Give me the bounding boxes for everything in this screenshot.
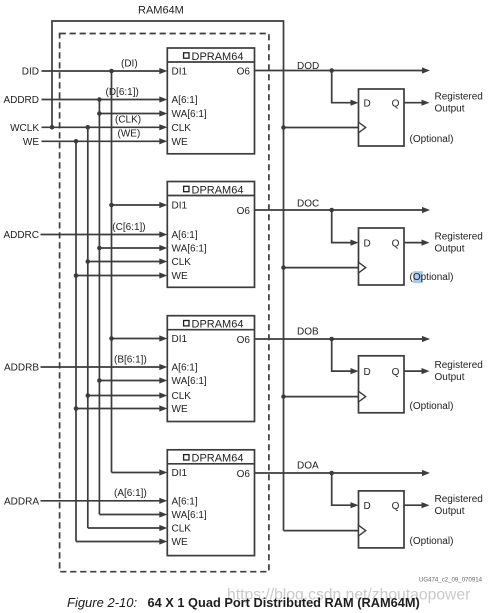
- DPRAM64 block U3: [167, 316, 254, 422]
- svg-text:Q: Q: [392, 98, 400, 109]
- DPRAM64 block U1: [167, 48, 254, 154]
- wire WA bus branch to block: [99, 247, 160, 249]
- node DI bus source junction: [109, 69, 114, 74]
- svg-text:Registered: Registered: [435, 92, 483, 103]
- svg-text:DPRAM64: DPRAM64: [192, 319, 244, 331]
- flip-flop register for DOD: [359, 89, 405, 146]
- wire WA bus branch to block: [99, 380, 160, 382]
- RAM64M dashed boundary: [60, 34, 269, 572]
- svg-text:DPRAM64: DPRAM64: [192, 184, 244, 196]
- wire DI vertical bus: [111, 71, 113, 473]
- wire output DOC from O6: [255, 209, 423, 211]
- svg-text:Output: Output: [435, 104, 465, 115]
- svg-text:(WE): (WE): [118, 129, 141, 140]
- wire WE bus end branch to block: [76, 541, 160, 543]
- svg-text:O6: O6: [237, 335, 251, 346]
- svg-text:DOB: DOB: [297, 326, 319, 337]
- wire DOB branch to FF D input: [332, 339, 352, 371]
- svg-text:(DI): (DI): [121, 58, 138, 69]
- svg-text:WE: WE: [23, 137, 39, 148]
- svg-text:A[6:1]: A[6:1]: [172, 95, 198, 106]
- svg-text:DPRAM64: DPRAM64: [192, 453, 244, 465]
- svg-text:A[6:1]: A[6:1]: [172, 363, 198, 374]
- svg-text:Figure 2-10:: Figure 2-10:: [67, 595, 137, 610]
- svg-text:CLK: CLK: [172, 257, 192, 268]
- node CLK bus tap junction: [86, 259, 91, 264]
- node WCLK tap for DOC register: [281, 265, 286, 270]
- wire clock branch to DOC register: [284, 267, 359, 269]
- svg-text:DI1: DI1: [172, 468, 188, 479]
- svg-text:Registered: Registered: [435, 494, 483, 505]
- svg-text:WE: WE: [172, 137, 188, 148]
- svg-text:WE: WE: [172, 404, 188, 415]
- node DOC branch junction: [329, 208, 334, 213]
- svg-text:RAM64M: RAM64M: [138, 5, 184, 17]
- svg-text:O6: O6: [237, 469, 251, 480]
- svg-text:DOA: DOA: [297, 461, 319, 472]
- node WCLK tap on left riser: [50, 125, 55, 130]
- wire output DOA from O6: [255, 472, 423, 474]
- svg-text:Output: Output: [435, 506, 465, 517]
- wire input ADDRC: [41, 234, 161, 236]
- wire clock branch to DOA register: [284, 530, 359, 532]
- DPRAM64 block U4: [167, 450, 254, 556]
- svg-text:A[6:1]: A[6:1]: [172, 497, 198, 508]
- svg-text:(Optional): (Optional): [410, 536, 454, 547]
- flip-flop register for DOB: [359, 356, 405, 413]
- svg-text:DI1: DI1: [172, 67, 188, 78]
- svg-text:O6: O6: [237, 67, 251, 78]
- svg-text:ADDRB: ADDRB: [4, 363, 39, 374]
- svg-text:CLK: CLK: [172, 123, 192, 134]
- flip-flop register for DOA: [359, 491, 405, 548]
- svg-text:DOD: DOD: [297, 61, 319, 72]
- wire CLK bus end branch to block: [88, 527, 161, 529]
- svg-text:Registered: Registered: [435, 360, 483, 371]
- svg-text:WA[6:1]: WA[6:1]: [172, 244, 207, 255]
- svg-text:(Optional): (Optional): [410, 134, 454, 145]
- wire DI bus branch to block: [112, 204, 161, 206]
- svg-text:CLK: CLK: [172, 391, 192, 402]
- wire DI bus branch to block: [112, 338, 161, 340]
- wire clock branch to DOD register: [284, 127, 359, 129]
- svg-text:O6: O6: [237, 206, 251, 217]
- svg-text:(Optional): (Optional): [410, 272, 454, 283]
- svg-text:UG474_c2_09_070914: UG474_c2_09_070914: [419, 577, 483, 584]
- wire input ADDRB: [41, 366, 161, 368]
- wire DI bus end branch to block: [112, 472, 161, 474]
- svg-text:D: D: [364, 98, 371, 109]
- wire WE bus branch to block: [76, 275, 160, 277]
- svg-text:WA[6:1]: WA[6:1]: [172, 510, 207, 521]
- svg-text:64 X 1 Quad Port Distributed R: 64 X 1 Quad Port Distributed RAM (RAM64M…: [148, 595, 420, 610]
- svg-text:DI1: DI1: [172, 334, 188, 345]
- node CLK bus tap junction: [86, 393, 91, 398]
- wire clock branch to DOB register: [284, 396, 359, 398]
- node WA bus tap junction: [97, 111, 102, 116]
- svg-text:Output: Output: [435, 243, 465, 254]
- node WE bus tap junction: [74, 273, 79, 278]
- svg-text:ADDRD: ADDRD: [3, 95, 39, 106]
- wire CLK bus branch to block: [88, 395, 161, 397]
- svg-text:D: D: [364, 238, 371, 249]
- svg-text:Output: Output: [435, 372, 465, 383]
- svg-text:WA[6:1]: WA[6:1]: [172, 109, 207, 120]
- wire CLK bus branch to block: [88, 261, 161, 263]
- node DI bus tap junction: [109, 336, 114, 341]
- wire input ADDRD: [42, 99, 161, 101]
- svg-text:ADDRA: ADDRA: [4, 496, 39, 507]
- node CLK bus source junction: [86, 125, 91, 130]
- wire WA vertical bus: [98, 100, 100, 515]
- node DOD branch junction: [329, 68, 334, 73]
- svg-text:(CLK): (CLK): [115, 115, 141, 126]
- wire input WE: [42, 140, 161, 142]
- svg-text:WE: WE: [172, 537, 188, 548]
- svg-text:Q: Q: [392, 238, 400, 249]
- wire output DOB from O6: [255, 338, 423, 340]
- node WCLK tap for DOD register: [281, 125, 286, 130]
- wire WE bus branch to block: [76, 408, 160, 410]
- node WA bus source junction: [97, 97, 102, 102]
- svg-text:Q: Q: [392, 501, 400, 512]
- flip-flop register for DOC: [359, 228, 405, 285]
- wire output DOD from O6: [255, 70, 423, 72]
- wire CLK vertical bus: [87, 127, 89, 528]
- svg-text:DOC: DOC: [297, 198, 319, 209]
- svg-text:D: D: [364, 501, 371, 512]
- wire input WCLK: [42, 126, 161, 128]
- node WA bus tap junction: [97, 378, 102, 383]
- node DOA branch junction: [329, 471, 334, 476]
- node WE bus source junction: [74, 139, 79, 144]
- node WA bus tap junction: [97, 246, 102, 251]
- wire input ADDRA: [41, 500, 161, 502]
- wire WA bus branch to block: [99, 113, 160, 115]
- wire DOD branch to FF D input: [332, 71, 352, 103]
- svg-text:(Optional): (Optional): [410, 401, 454, 412]
- svg-text:A[6:1]: A[6:1]: [172, 230, 198, 241]
- svg-text:D: D: [364, 367, 371, 378]
- node WCLK tap for DOB register: [281, 394, 286, 399]
- wire WA bus end branch to block: [99, 514, 160, 516]
- svg-text:WA[6:1]: WA[6:1]: [172, 376, 207, 387]
- node WE bus tap junction: [74, 406, 79, 411]
- wire DOC branch to FF D input: [332, 210, 352, 243]
- wire DOA branch to FF D input: [332, 473, 352, 505]
- svg-text:WCLK: WCLK: [10, 123, 39, 134]
- node DOB branch junction: [329, 337, 334, 342]
- svg-text:WE: WE: [172, 271, 188, 282]
- wire Q output of DOB register: [404, 370, 422, 372]
- svg-text:(B[6:1]): (B[6:1]): [114, 354, 147, 365]
- svg-text:(C[6:1]): (C[6:1]): [112, 222, 145, 233]
- svg-text:DI1: DI1: [172, 201, 188, 212]
- wire Q output of DOC register: [404, 242, 422, 244]
- svg-text:(D[6:1]): (D[6:1]): [106, 87, 139, 98]
- wire WCLK top distribution routing (left riser, top run, right drop): [52, 21, 284, 531]
- svg-text:CLK: CLK: [172, 524, 192, 535]
- svg-text:DID: DID: [22, 67, 39, 78]
- wire WE vertical bus: [75, 141, 77, 541]
- svg-text:Q: Q: [392, 367, 400, 378]
- wire input DID: [42, 70, 161, 72]
- DPRAM64 block U2: [167, 182, 254, 288]
- highlight artifact on (Optional): [413, 271, 423, 283]
- svg-text:Registered: Registered: [435, 231, 483, 242]
- node DI bus tap junction: [109, 203, 114, 208]
- svg-text:(A[6:1]): (A[6:1]): [114, 488, 147, 499]
- svg-text:ADDRC: ADDRC: [3, 230, 39, 241]
- wire Q output of DOD register: [404, 102, 422, 104]
- svg-text:DPRAM64: DPRAM64: [192, 51, 244, 63]
- wire Q output of DOA register: [404, 504, 422, 506]
